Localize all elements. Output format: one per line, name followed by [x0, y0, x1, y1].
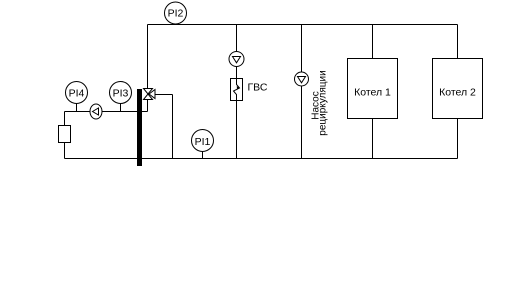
wire: bottom return pipe — [65, 158, 458, 160]
boiler Котел 1 — [348, 59, 398, 119]
svg-text:PI4: PI4 — [69, 88, 85, 100]
filter — [59, 126, 71, 143]
wire: left supply pipe — [65, 111, 148, 113]
wire: filter to return pipe — [64, 143, 66, 159]
gauge PI4 — [66, 82, 88, 112]
svg-text:Котел 1: Котел 1 — [354, 87, 391, 99]
gauge PI2 — [165, 2, 187, 24]
svg-text:рециркуляции: рециркуляции — [318, 70, 329, 135]
boiler Котел 2 — [433, 59, 483, 119]
wire: DHW riser — [236, 25, 238, 159]
wire: boiler 1 bottom stub — [372, 119, 374, 159]
DHW pump symbol — [229, 52, 244, 67]
wire: boiler 2 bottom stub — [457, 119, 459, 159]
gauge PI3 — [110, 82, 132, 112]
wire: valve bypass horizontal — [155, 94, 173, 96]
hydraulic separator (thick bar) — [137, 89, 142, 166]
svg-text:PI2: PI2 — [168, 8, 184, 20]
svg-text:PI1: PI1 — [195, 136, 211, 148]
wire: boiler 1 top stub — [372, 25, 374, 59]
wire: 3-way valve bottom stem — [147, 100, 149, 112]
svg-text:Котел 2: Котел 2 — [439, 87, 476, 99]
check valve — [90, 104, 102, 119]
wire: left downcomer to filter — [64, 112, 66, 126]
wire: recirculation riser — [301, 25, 303, 159]
3-way valve — [144, 89, 156, 100]
wire: riser from top pipe to 3-way valve — [147, 25, 149, 90]
wire: bypass downcomer — [172, 95, 174, 159]
svg-text:PI3: PI3 — [113, 88, 129, 100]
DHW heater box — [231, 79, 243, 101]
wire: top supply pipe — [148, 24, 458, 26]
recirculation pump symbol — [295, 72, 309, 86]
svg-text:ГВС: ГВС — [248, 82, 268, 94]
gauge PI1 — [192, 130, 214, 159]
label Насос рециркуляции (rotated) — [311, 70, 329, 135]
wire: boiler 2 top stub — [457, 25, 459, 59]
